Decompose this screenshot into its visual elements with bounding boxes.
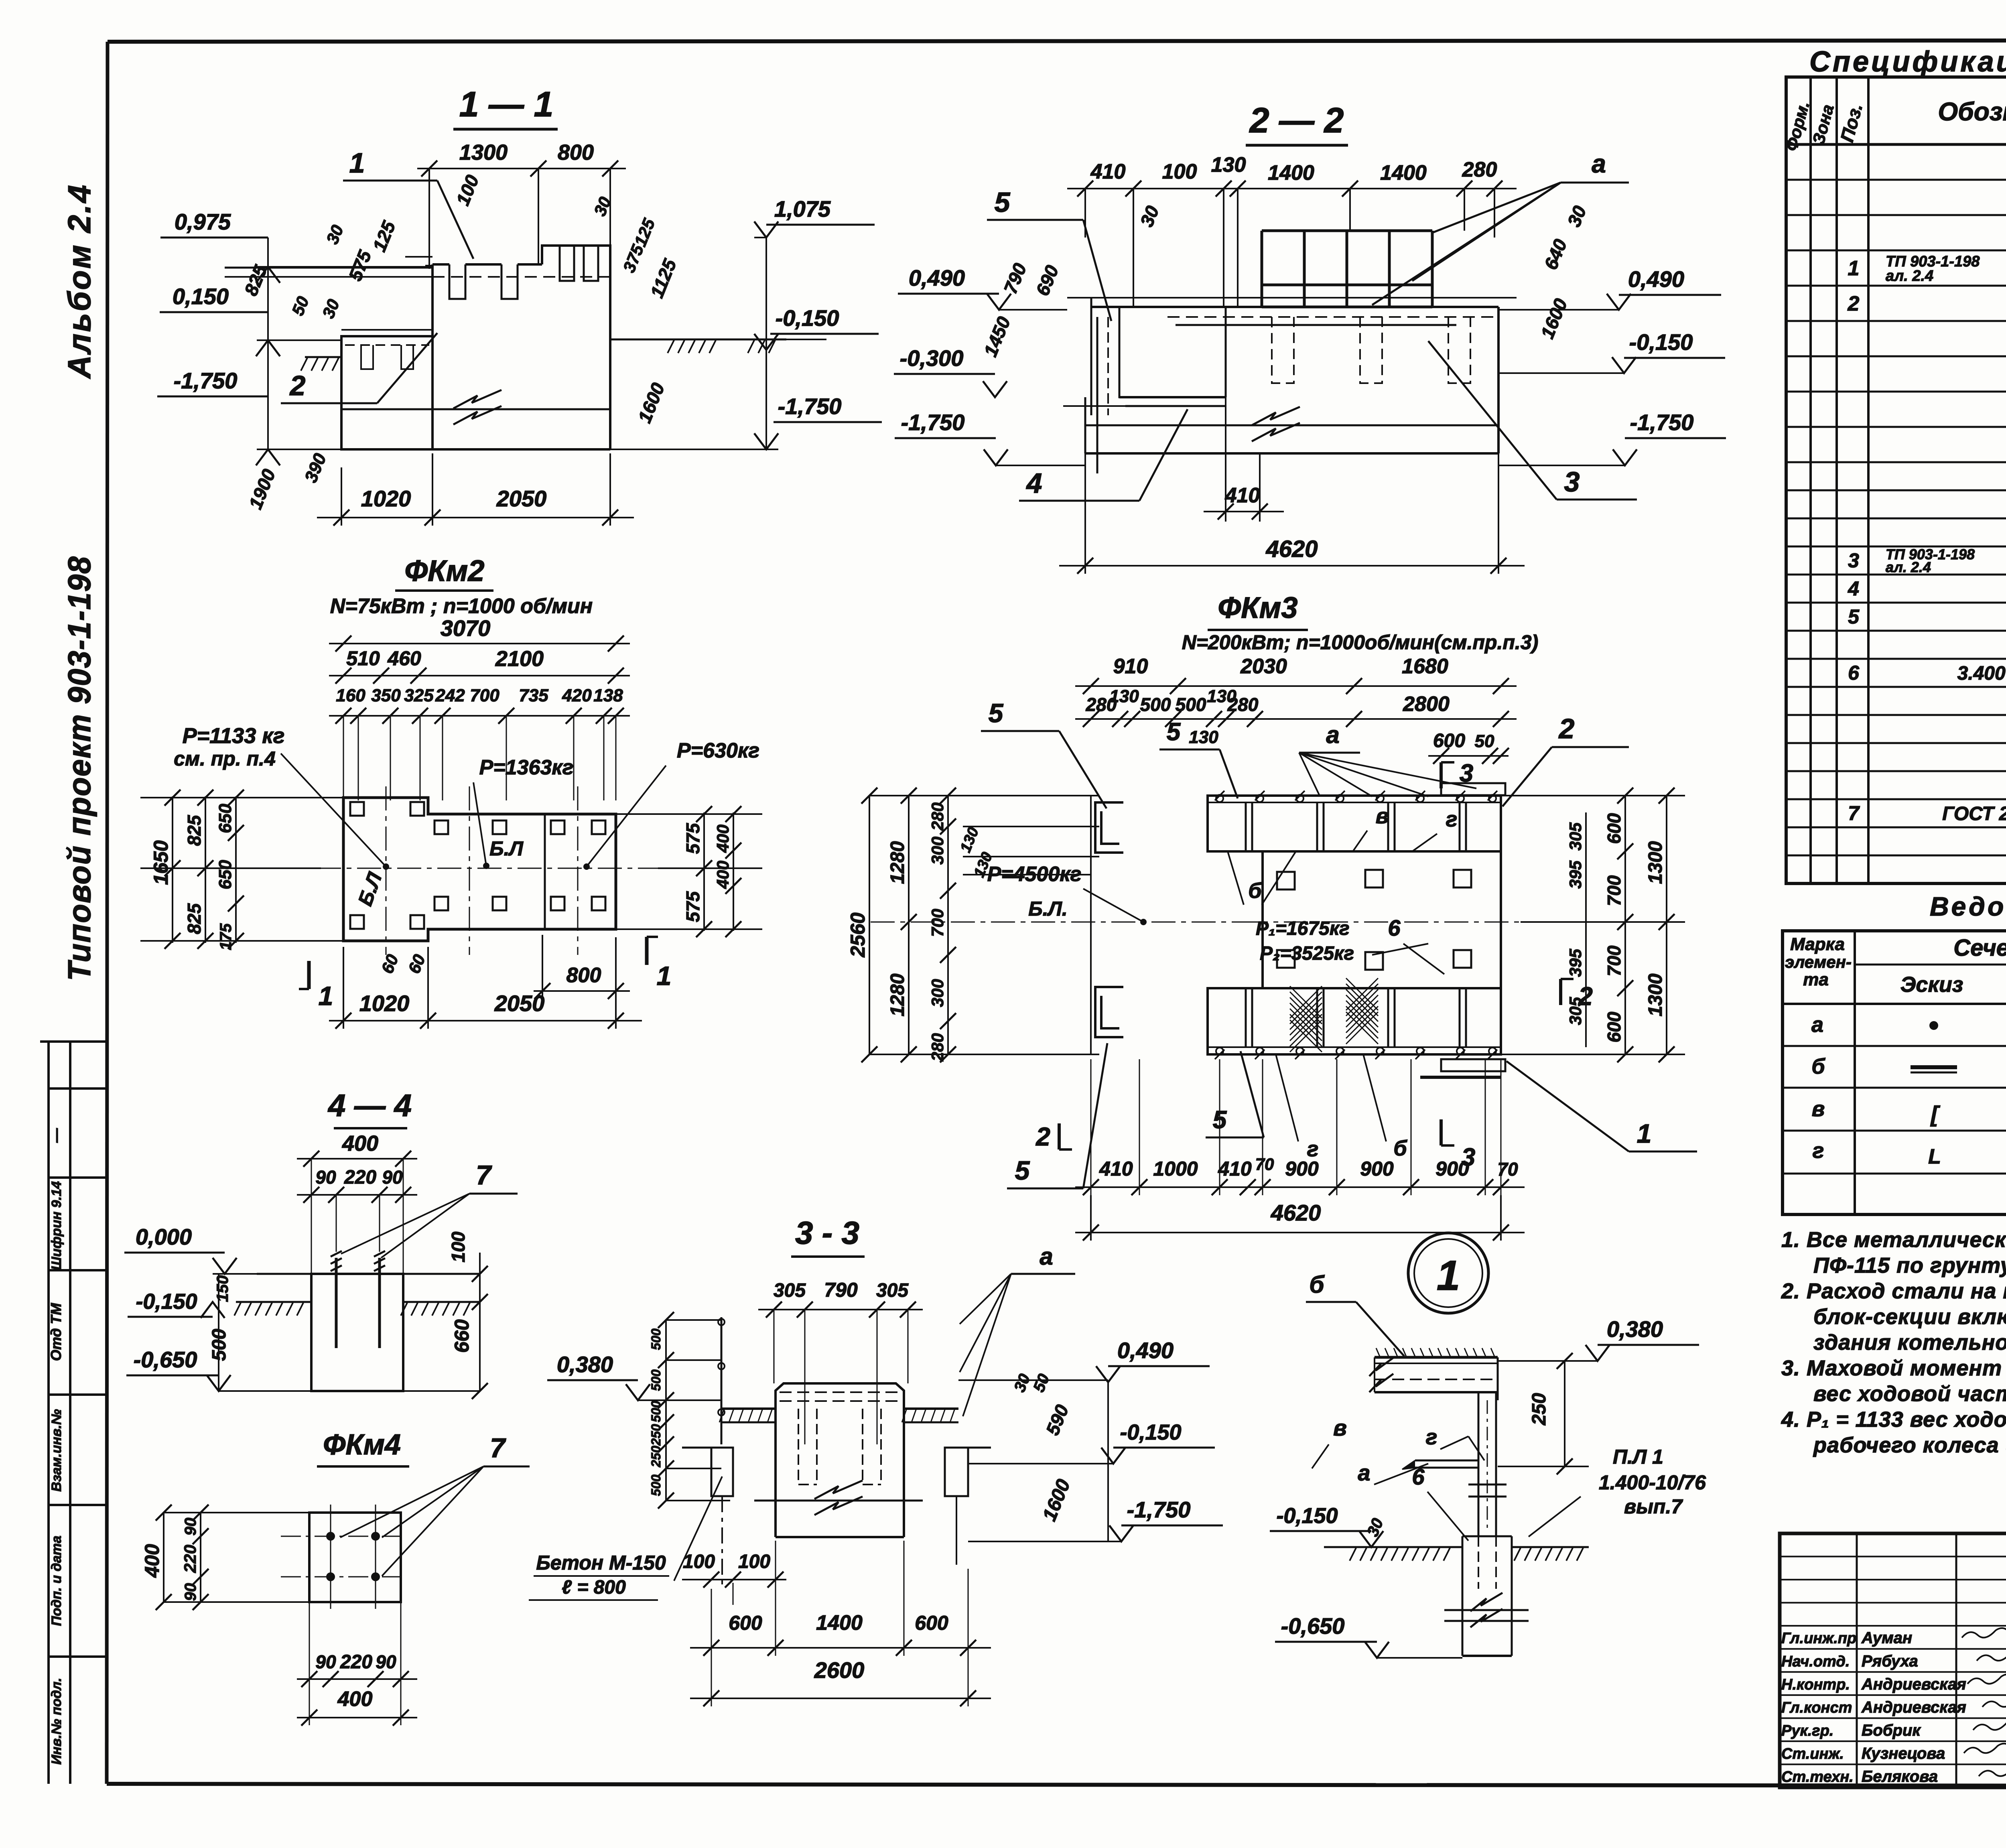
svg-text:50: 50 bbox=[1475, 731, 1494, 751]
svg-text:Шифрин 9.14: Шифрин 9.14 bbox=[49, 1181, 64, 1270]
svg-text:Б.Л: Б.Л bbox=[489, 837, 524, 860]
svg-text:2. Расход стали на металлич: 2. Расход стали на металлические изделия… bbox=[1781, 1279, 2006, 1303]
svg-text:ал. 2.4: ал. 2.4 bbox=[1886, 268, 1933, 284]
svg-text:1: 1 bbox=[319, 981, 333, 1011]
svg-text:825: 825 bbox=[184, 814, 205, 846]
node1 beam bbox=[1375, 1356, 1498, 1359]
FKm3 middle block bbox=[1263, 851, 1501, 988]
svg-text:130: 130 bbox=[1211, 153, 1246, 177]
svg-text:б: б bbox=[1248, 879, 1262, 903]
svg-text:400: 400 bbox=[713, 824, 732, 853]
svg-text:410: 410 bbox=[1099, 1158, 1133, 1180]
svg-text:P₁=1675кг: P₁=1675кг bbox=[1256, 918, 1350, 939]
svg-text:-0,150: -0,150 bbox=[1120, 1420, 1181, 1444]
svg-text:Б.Л.: Б.Л. bbox=[1028, 898, 1068, 920]
svg-text:700: 700 bbox=[928, 909, 947, 937]
svg-text:160: 160 bbox=[336, 686, 365, 705]
svg-text:800: 800 bbox=[558, 140, 594, 164]
svg-text:P=1363кг: P=1363кг bbox=[479, 756, 574, 779]
svg-text:ФКм3: ФКм3 bbox=[1218, 591, 1297, 624]
svg-text:-0,150: -0,150 bbox=[776, 305, 839, 331]
svg-text:0,490: 0,490 bbox=[1117, 1338, 1174, 1363]
svg-text:5: 5 bbox=[1167, 718, 1181, 746]
title block bbox=[1780, 1533, 2006, 1789]
svg-text:2100: 2100 bbox=[495, 647, 544, 671]
node 1 detail bbox=[1270, 1233, 1729, 1658]
svg-text:P₂=3525кг: P₂=3525кг bbox=[1260, 943, 1354, 964]
svg-text:600: 600 bbox=[915, 1612, 948, 1634]
svg-text:1650: 1650 bbox=[150, 840, 172, 885]
svg-text:5: 5 bbox=[1848, 605, 1860, 628]
section 2-2 bbox=[894, 100, 1726, 574]
svg-text:Ведомость: Ведомость bbox=[1930, 892, 2006, 921]
svg-text:6: 6 bbox=[1388, 915, 1401, 940]
svg-text:6: 6 bbox=[1412, 1464, 1425, 1489]
svg-text:250: 250 bbox=[1529, 1393, 1550, 1426]
svg-text:500: 500 bbox=[209, 1329, 230, 1361]
svg-text:2: 2 bbox=[1558, 713, 1575, 744]
svg-text:400: 400 bbox=[141, 1544, 163, 1578]
svg-text:Эскиз: Эскиз bbox=[1900, 973, 1963, 997]
svg-text:1 — 1: 1 — 1 bbox=[459, 84, 554, 124]
svg-text:1.400-10/76: 1.400-10/76 bbox=[1599, 1471, 1706, 1494]
crosshatch patches bbox=[1290, 986, 1322, 1052]
svg-text:блок-секции включается в ко: блок-секции включается в комплект чертеж… bbox=[1813, 1305, 2006, 1329]
svg-text:П.Л 1: П.Л 1 bbox=[1613, 1446, 1663, 1468]
svg-text:280: 280 bbox=[1462, 158, 1497, 181]
svg-text:2: 2 bbox=[1848, 292, 1860, 315]
svg-text:элемен-: элемен- bbox=[1785, 952, 1852, 971]
svg-text:2050: 2050 bbox=[494, 991, 545, 1016]
svg-text:см. пр. п.4: см. пр. п.4 bbox=[174, 747, 276, 770]
svg-text:2560: 2560 bbox=[847, 912, 869, 957]
svg-text:а: а bbox=[1811, 1013, 1823, 1037]
svg-text:500: 500 bbox=[649, 1474, 663, 1496]
svg-text:2050: 2050 bbox=[496, 486, 547, 511]
svg-text:130: 130 bbox=[1109, 686, 1139, 706]
svg-text:130: 130 bbox=[1189, 727, 1218, 747]
svg-text:Спецификация: Спецификация bbox=[1809, 46, 2006, 78]
svg-text:б: б bbox=[1309, 1271, 1325, 1298]
svg-text:Ст.инж.: Ст.инж. bbox=[1781, 1745, 1844, 1762]
svg-text:P=1133 кг: P=1133 кг bbox=[183, 724, 285, 748]
svg-text:70: 70 bbox=[1255, 1155, 1274, 1174]
svg-text:2600: 2600 bbox=[814, 1657, 865, 1683]
svg-text:0,150: 0,150 bbox=[173, 284, 229, 309]
svg-text:a: a bbox=[1040, 1243, 1053, 1270]
svg-text:138: 138 bbox=[593, 686, 623, 705]
svg-text:500: 500 bbox=[649, 1369, 663, 1391]
plan FKm2 bbox=[140, 554, 762, 1029]
anchor bolts bbox=[350, 802, 364, 816]
svg-text:1400: 1400 bbox=[816, 1611, 863, 1635]
svg-text:1: 1 bbox=[1437, 1252, 1460, 1299]
svg-text:-0,150: -0,150 bbox=[1629, 329, 1693, 355]
svg-text:150: 150 bbox=[214, 1275, 231, 1302]
svg-text:1300: 1300 bbox=[1645, 841, 1666, 884]
svg-text:100: 100 bbox=[1162, 160, 1197, 183]
svg-text:90: 90 bbox=[376, 1651, 396, 1672]
svg-text:1,075: 1,075 bbox=[774, 196, 831, 221]
svg-text:Гл.конст: Гл.конст bbox=[1781, 1699, 1852, 1716]
svg-text:5: 5 bbox=[1015, 1156, 1030, 1185]
svg-text:5: 5 bbox=[989, 698, 1004, 728]
svg-text:900: 900 bbox=[1435, 1158, 1469, 1180]
svg-text:Андриевская: Андриевская bbox=[1861, 1698, 1966, 1716]
svg-text:100: 100 bbox=[738, 1551, 770, 1572]
svg-text:510: 510 bbox=[346, 647, 380, 670]
svg-text:700: 700 bbox=[1604, 945, 1624, 976]
svg-text:410: 410 bbox=[1225, 484, 1260, 507]
svg-text:4. Р₁ = 1133 вес ходовой ча: 4. Р₁ = 1133 вес ходовой части рамы и bbox=[1781, 1407, 2006, 1432]
svg-text:305: 305 bbox=[1566, 822, 1585, 851]
section 3-3 bbox=[529, 1215, 1223, 1706]
svg-text:P=630кг: P=630кг bbox=[677, 739, 759, 762]
svg-text:0,975: 0,975 bbox=[175, 209, 231, 234]
FKm3 bottom beam strip bbox=[1208, 988, 1501, 1054]
svg-text:90: 90 bbox=[182, 1583, 199, 1601]
specification table grid bbox=[1786, 77, 2006, 883]
svg-text:Рук.гр.: Рук.гр. bbox=[1781, 1722, 1833, 1739]
svg-text:в: в bbox=[1376, 804, 1389, 828]
svg-text:-1,750: -1,750 bbox=[1127, 1497, 1191, 1522]
svg-text:410: 410 bbox=[1218, 1158, 1252, 1180]
svg-text:1: 1 bbox=[1848, 257, 1860, 280]
svg-text:600: 600 bbox=[729, 1612, 762, 1634]
svg-text:б: б bbox=[1393, 1136, 1407, 1160]
svg-text:300: 300 bbox=[928, 979, 947, 1007]
svg-text:4620: 4620 bbox=[1271, 1200, 1321, 1225]
svg-text:N=200кВт; n=1000об/мин(см.пр.п: N=200кВт; n=1000об/мин(см.пр.п.3) bbox=[1182, 631, 1538, 654]
svg-text:0,380: 0,380 bbox=[557, 1352, 613, 1377]
foundation FKm2 section outline bbox=[432, 246, 610, 449]
svg-text:1400: 1400 bbox=[1380, 161, 1427, 185]
svg-text:1: 1 bbox=[349, 147, 365, 179]
svg-text:305: 305 bbox=[774, 1280, 806, 1301]
svg-text:100: 100 bbox=[683, 1551, 715, 1572]
svg-text:Альбом 2.4: Альбом 2.4 bbox=[61, 183, 97, 379]
svg-text:650: 650 bbox=[215, 860, 235, 889]
svg-text:660: 660 bbox=[451, 1319, 473, 1353]
svg-text:7: 7 bbox=[476, 1160, 492, 1190]
svg-text:г: г bbox=[1446, 807, 1458, 831]
svg-text:3: 3 bbox=[1564, 466, 1580, 498]
plan FKm4 bbox=[141, 1429, 530, 1726]
pedestals 3-3 bbox=[711, 1448, 733, 1496]
svg-text:400: 400 bbox=[713, 861, 732, 889]
svg-text:4: 4 bbox=[1026, 467, 1042, 499]
svg-text:ФКм4: ФКм4 bbox=[323, 1429, 401, 1461]
svg-text:220: 220 bbox=[344, 1167, 376, 1188]
svg-text:325: 325 bbox=[404, 686, 434, 705]
svg-text:вып.7: вып.7 bbox=[1624, 1495, 1683, 1518]
svg-text:650: 650 bbox=[215, 804, 235, 833]
svg-text:Андриевская: Андриевская bbox=[1861, 1675, 1966, 1693]
svg-text:420: 420 bbox=[562, 686, 592, 705]
svg-text:2030: 2030 bbox=[1240, 655, 1287, 678]
svg-text:800: 800 bbox=[566, 964, 601, 987]
svg-text:280: 280 bbox=[928, 802, 947, 831]
svg-text:Взам.инв.№: Взам.инв.№ bbox=[49, 1409, 64, 1492]
svg-text:Нач.отд.: Нач.отд. bbox=[1781, 1653, 1850, 1670]
svg-text:0,000: 0,000 bbox=[136, 1224, 192, 1249]
svg-text:1000: 1000 bbox=[1153, 1158, 1198, 1180]
svg-text:1400: 1400 bbox=[1268, 161, 1314, 185]
svg-text:в: в bbox=[1333, 1415, 1347, 1440]
svg-text:г: г bbox=[1426, 1425, 1437, 1449]
svg-text:-1,750: -1,750 bbox=[778, 394, 842, 419]
svg-text:1300: 1300 bbox=[459, 140, 508, 164]
svg-text:-0,650: -0,650 bbox=[134, 1347, 197, 1372]
svg-text:Ауман: Ауман bbox=[1861, 1629, 1912, 1647]
svg-text:рабочего колеса (ФКМ 2).: рабочего колеса (ФКМ 2). bbox=[1813, 1433, 2006, 1457]
svg-text:Типовой проект 903-1-198: Типовой проект 903-1-198 bbox=[61, 556, 97, 981]
svg-text:-0,150: -0,150 bbox=[136, 1290, 197, 1314]
svg-text:5: 5 bbox=[995, 187, 1011, 218]
svg-text:220: 220 bbox=[181, 1545, 199, 1573]
svg-text:250: 250 bbox=[649, 1446, 663, 1468]
svg-text:500: 500 bbox=[1140, 694, 1171, 715]
svg-text:900: 900 bbox=[1285, 1158, 1319, 1180]
FKm3 top beam strip bbox=[1208, 796, 1501, 851]
svg-text:1020: 1020 bbox=[361, 486, 411, 511]
pedestal 4-4 bbox=[311, 1274, 403, 1391]
svg-text:-0,150: -0,150 bbox=[1276, 1504, 1338, 1528]
svg-text:2 — 2: 2 — 2 bbox=[1249, 100, 1344, 140]
svg-text:900: 900 bbox=[1360, 1158, 1394, 1180]
corner wall left bbox=[1091, 298, 1125, 415]
svg-text:0,490: 0,490 bbox=[909, 265, 965, 290]
svg-text:ал. 2.4: ал. 2.4 bbox=[1886, 559, 1931, 575]
svg-text:575: 575 bbox=[682, 822, 703, 854]
svg-text:2: 2 bbox=[289, 370, 306, 401]
svg-text:910: 910 bbox=[1113, 655, 1148, 678]
plan FKm2 outline bbox=[343, 798, 616, 941]
svg-text:здания котельной.: здания котельной. bbox=[1813, 1330, 2006, 1355]
svg-text:350: 350 bbox=[371, 686, 401, 705]
section 4-4 bbox=[124, 1088, 518, 1399]
svg-text:735: 735 bbox=[519, 686, 548, 705]
svg-text:1: 1 bbox=[1637, 1119, 1652, 1148]
svg-text:г: г bbox=[1813, 1139, 1824, 1163]
svg-text:3: 3 bbox=[1848, 549, 1859, 572]
svg-text:575: 575 bbox=[682, 891, 703, 922]
svg-text:3 - 3: 3 - 3 bbox=[795, 1215, 859, 1251]
3-3 foundation body bbox=[776, 1383, 904, 1409]
svg-text:Сечение: Сечение bbox=[1953, 935, 2006, 961]
svg-text:ПФ-115 по грунту ГФ-020 толщин: ПФ-115 по грунту ГФ-020 толщиной 80мкм. bbox=[1813, 1253, 2006, 1277]
svg-text:7: 7 bbox=[490, 1433, 506, 1463]
svg-text:250: 250 bbox=[649, 1424, 663, 1446]
svg-text:700: 700 bbox=[470, 686, 499, 705]
svg-text:Подп. и дата: Подп. и дата bbox=[49, 1535, 64, 1626]
svg-text:4 — 4: 4 — 4 bbox=[327, 1088, 412, 1123]
svg-text:0,490: 0,490 bbox=[1628, 266, 1684, 292]
svg-text:Рябуха: Рябуха bbox=[1862, 1652, 1918, 1670]
left pedestal bbox=[341, 336, 432, 449]
svg-text:825: 825 bbox=[184, 903, 205, 934]
svg-text:6: 6 bbox=[1848, 662, 1860, 684]
svg-text:3.400 -6/76: 3.400 -6/76 bbox=[1957, 663, 2006, 684]
svg-text:410: 410 bbox=[1090, 160, 1126, 183]
svg-text:Бетон М-150: Бетон М-150 bbox=[536, 1552, 666, 1574]
svg-text:4620: 4620 bbox=[1265, 536, 1318, 562]
section 1-1 bbox=[157, 84, 882, 526]
svg-text:вес ходовой части и колеса: вес ходовой части и колеса дымососа (ФКМ… bbox=[1813, 1382, 2006, 1406]
svg-text:100: 100 bbox=[448, 1231, 469, 1262]
svg-text:a: a bbox=[1358, 1460, 1370, 1485]
svg-text:1280: 1280 bbox=[887, 841, 908, 884]
svg-text:90: 90 bbox=[315, 1651, 336, 1672]
svg-text:1: 1 bbox=[657, 961, 672, 991]
svg-text:300: 300 bbox=[928, 837, 947, 865]
svg-text:3. Маховой момент ротора ды: 3. Маховой момент ротора дымососа М=1590… bbox=[1781, 1356, 2006, 1380]
svg-text:790: 790 bbox=[824, 1279, 858, 1301]
svg-text:2800: 2800 bbox=[1403, 692, 1450, 716]
node1 pedestal bbox=[1462, 1535, 1512, 1537]
svg-text:500: 500 bbox=[649, 1401, 663, 1422]
svg-text:ГОСТ 24379.1-8: ГОСТ 24379.1-8 bbox=[1942, 803, 2006, 824]
svg-text:-1,750: -1,750 bbox=[901, 410, 965, 435]
svg-text:395: 395 bbox=[1566, 948, 1585, 977]
svg-text:-0,650: -0,650 bbox=[1281, 1613, 1345, 1639]
plan FKm3 bbox=[847, 591, 1697, 1241]
svg-text:0,380: 0,380 bbox=[1607, 1316, 1663, 1342]
svg-text:-0,300: -0,300 bbox=[900, 345, 964, 371]
channel symbols left bbox=[1095, 802, 1123, 853]
svg-text:4: 4 bbox=[1848, 577, 1859, 600]
svg-text:280: 280 bbox=[928, 1033, 947, 1062]
vedomost table grid bbox=[1783, 931, 2006, 1214]
svg-text:-1,750: -1,750 bbox=[1630, 410, 1694, 435]
svg-text:1300: 1300 bbox=[1645, 973, 1666, 1016]
svg-text:400: 400 bbox=[342, 1131, 378, 1156]
svg-text:600: 600 bbox=[1604, 1011, 1624, 1042]
svg-text:N=75кВт ; n=1000 об/мин: N=75кВт ; n=1000 об/мин bbox=[330, 595, 593, 618]
svg-text:Ст.техн.: Ст.техн. bbox=[1781, 1769, 1854, 1785]
svg-text:Кузнецова: Кузнецова bbox=[1862, 1744, 1945, 1762]
svg-text:460: 460 bbox=[387, 647, 421, 670]
svg-text:90: 90 bbox=[382, 1167, 403, 1188]
svg-text:395: 395 bbox=[1566, 860, 1585, 889]
svg-text:175: 175 bbox=[217, 923, 235, 950]
svg-text:3070: 3070 bbox=[441, 615, 491, 641]
svg-text:в: в bbox=[1812, 1097, 1825, 1121]
svg-text:2: 2 bbox=[1578, 982, 1593, 1011]
svg-text:1280: 1280 bbox=[887, 973, 908, 1016]
svg-text:1680: 1680 bbox=[1402, 655, 1448, 678]
svg-text:та: та bbox=[1803, 970, 1829, 989]
svg-text:-1,750: -1,750 bbox=[174, 368, 238, 393]
svg-text:Белякова: Белякова bbox=[1862, 1768, 1938, 1785]
svg-text:400: 400 bbox=[337, 1688, 373, 1711]
svg-text:220: 220 bbox=[340, 1651, 372, 1673]
svg-text:ℓ = 800: ℓ = 800 bbox=[562, 1577, 626, 1598]
svg-text:Инв.№ подл.: Инв.№ подл. bbox=[49, 1678, 64, 1765]
svg-text:Бобрик: Бобрик bbox=[1862, 1722, 1921, 1739]
svg-text:Марка: Марка bbox=[1790, 934, 1845, 954]
svg-text:1020: 1020 bbox=[359, 991, 410, 1016]
rebar mesh grid bbox=[1261, 231, 1263, 307]
svg-text:7: 7 bbox=[1848, 802, 1860, 824]
svg-text:600: 600 bbox=[1604, 813, 1624, 844]
svg-text:242: 242 bbox=[435, 686, 465, 705]
svg-text:1. Все металлические изделия: 1. Все металлические изделия окрасить 3м… bbox=[1781, 1228, 2006, 1252]
svg-text:a: a bbox=[1592, 149, 1606, 178]
svg-text:Гл.инж.пр: Гл.инж.пр bbox=[1781, 1630, 1856, 1647]
svg-text:б: б bbox=[1811, 1054, 1825, 1078]
svg-text:Обозначение: Обозначение bbox=[1938, 97, 2006, 126]
svg-text:a: a bbox=[1326, 721, 1339, 748]
svg-text:ФКм2: ФКм2 bbox=[404, 554, 484, 587]
svg-text:500: 500 bbox=[649, 1328, 663, 1350]
section mark 1-1 flags bbox=[307, 961, 311, 989]
svg-text:90: 90 bbox=[182, 1518, 199, 1536]
svg-text:2: 2 bbox=[1035, 1122, 1050, 1151]
svg-text:L: L bbox=[1928, 1145, 1941, 1168]
svg-text:Отд ТМ: Отд ТМ bbox=[48, 1303, 64, 1361]
svg-text:—: — bbox=[48, 1128, 64, 1143]
svg-text:700: 700 bbox=[1604, 875, 1624, 906]
svg-text:305: 305 bbox=[876, 1280, 909, 1301]
svg-text:Н.контр.: Н.контр. bbox=[1781, 1676, 1850, 1693]
svg-text:90: 90 bbox=[315, 1167, 336, 1188]
foundation body 2-2 bbox=[1225, 307, 1227, 397]
left margin strip table bbox=[40, 1042, 107, 1784]
